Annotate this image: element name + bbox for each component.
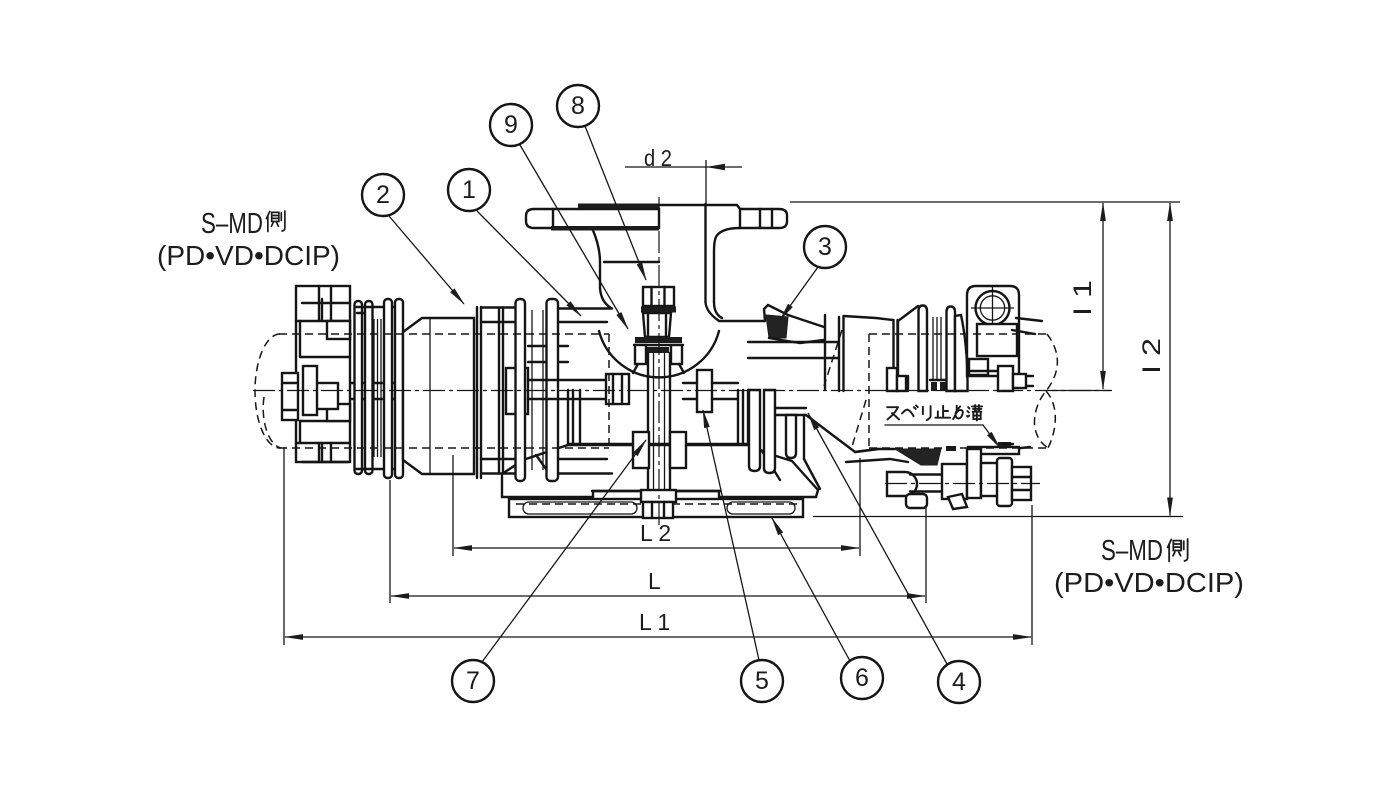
dimension d2: [625, 145, 742, 204]
svg-text:6: 6: [855, 664, 869, 692]
center socket nut (left): [506, 368, 528, 414]
balloon 6: [841, 657, 883, 699]
tome: [935, 406, 950, 418]
svg-text:(PD•VD•DCIP): (PD•VD•DCIP): [1054, 567, 1244, 598]
right bracket with bolt hole: [967, 286, 1019, 376]
valve hex nut: [1012, 467, 1031, 500]
right pipe end dashed arc: [1034, 334, 1057, 448]
be: [902, 405, 918, 416]
dimension I1: [790, 202, 1180, 391]
item5 nut on lower right: [683, 370, 738, 412]
vertical bolt centerline: [658, 197, 660, 528]
right coupling barrel top edge: [844, 316, 894, 320]
right coupling ring pair: [894, 320, 898, 391]
balloon 2: [362, 174, 404, 216]
valve washer flange: [997, 458, 1012, 506]
right socket: gasket seat and spigot: [719, 305, 878, 489]
lower body walls: [567, 390, 569, 444]
svg-text:L: L: [648, 568, 661, 594]
lower-right hanging flange legs: [749, 390, 760, 471]
right gland: [955, 315, 968, 391]
right coupling sleeve mouth rings: [839, 317, 844, 391]
dimension L1: [284, 447, 1032, 645]
left T-bolt nut: [404, 368, 429, 414]
svg-text:2: 2: [376, 181, 390, 209]
right pipe tail: [1012, 318, 1042, 449]
center unit left socket band: [481, 308, 517, 474]
balloon 4: [938, 661, 980, 703]
leader balloon 9: [520, 145, 628, 329]
kanji soku: [266, 211, 284, 232]
center body bell and top flange: [558, 228, 838, 474]
valve lower pad: [906, 494, 927, 508]
valve dash centerline: [885, 483, 1040, 485]
dimension I2: [813, 203, 1183, 517]
right coupling bolt shanks: [930, 317, 946, 391]
right flange plate 2: [947, 307, 956, 392]
svg-text:I 2: I 2: [1138, 338, 1166, 374]
leader balloon 2: [389, 216, 464, 304]
ri: [923, 406, 931, 420]
dimension L: [390, 480, 926, 603]
dimension L2: [453, 455, 860, 556]
valve mid block: [942, 464, 967, 499]
leader balloon 3: [780, 267, 818, 320]
center rod bottom nut: [641, 490, 676, 518]
leader balloon 1: [477, 211, 581, 316]
strap plate on pipe: [968, 447, 1019, 454]
center long bolt rod: [648, 353, 670, 502]
su: [887, 407, 899, 419]
right coupling bolt and nut: [998, 366, 1033, 391]
left T-bolt rod: [317, 383, 405, 399]
left flange plate pair B: [384, 299, 403, 478]
label S-MD side right: [1054, 535, 1244, 598]
svg-text:9: 9: [504, 111, 518, 139]
right flange plate 1: [919, 306, 928, 392]
svg-text:(PD•VD•DCIP): (PD•VD•DCIP): [157, 240, 340, 271]
leader balloon 7: [482, 440, 646, 662]
balloon 5: [741, 660, 783, 702]
left flange plate pair A: [355, 301, 402, 474]
flange nut (item 9 target): [635, 337, 682, 343]
leader balloon 6: [772, 518, 850, 661]
balloon 1: [448, 169, 490, 211]
svg-text:I 1: I 1: [1069, 280, 1097, 316]
left collar lines: [528, 346, 568, 362]
gasket item 3 (hatched): [766, 315, 788, 338]
sleeve junction rings: [477, 307, 481, 478]
left sleeve cylinder: [403, 318, 474, 474]
leader balloon 5: [703, 410, 759, 660]
mizo: [967, 405, 982, 420]
svg-text:5: 5: [755, 667, 769, 695]
svg-text:1: 1: [462, 176, 476, 204]
drain valve assembly: [846, 442, 1040, 509]
valve left hex: [887, 472, 917, 496]
me: [953, 406, 963, 419]
top flange (half-section): [526, 204, 787, 303]
bell dome arc: [599, 331, 719, 377]
saddle: [502, 445, 818, 497]
valve upper body: [967, 449, 981, 498]
center flange plate pair C: [516, 299, 559, 481]
svg-text:L 2: L 2: [640, 520, 671, 546]
left gland follower: [296, 286, 350, 462]
center bolt stack: hex head (item 8 target): [633, 287, 684, 373]
leader balloon 8: [585, 126, 646, 280]
balloon 9: [490, 104, 532, 146]
rubber pad (hatched): [895, 449, 941, 465]
socket ring: [499, 308, 503, 474]
right pipe hidden outline overlay: [869, 334, 1050, 448]
svg-text:3: 3: [818, 233, 832, 261]
balloon 7: [452, 660, 494, 702]
svg-text:4: 4: [952, 668, 966, 696]
center T-bolt rod and head: [528, 374, 629, 404]
leader balloon 4: [808, 413, 947, 664]
balloon 8: [557, 85, 599, 127]
svg-text:S–MD: S–MD: [201, 208, 263, 240]
left pipe hidden outline (dashed): [255, 334, 281, 448]
svg-text:d 2: d 2: [644, 145, 672, 171]
svg-text:S–MD: S–MD: [1101, 535, 1163, 567]
svg-text:L 1: L 1: [639, 609, 670, 635]
left T-bolt head: [282, 366, 317, 420]
base plate: [509, 499, 803, 517]
svg-text:8: 8: [571, 92, 585, 120]
balloon 3: [804, 226, 846, 268]
label S-MD side left: [157, 208, 340, 271]
main drawing: [255, 204, 1057, 519]
label suberi-dome-mizo with underline and leader: [885, 405, 1000, 448]
right coupling cone: [887, 306, 918, 391]
svg-text:7: 7: [466, 667, 480, 695]
flange neck walls: [592, 228, 611, 308]
valve shaft: [910, 473, 942, 475]
center rod guide blocks: [633, 432, 686, 468]
horizontal pipe centerline: [253, 390, 1112, 392]
left pipe hidden outline overlay: [279, 334, 609, 448]
